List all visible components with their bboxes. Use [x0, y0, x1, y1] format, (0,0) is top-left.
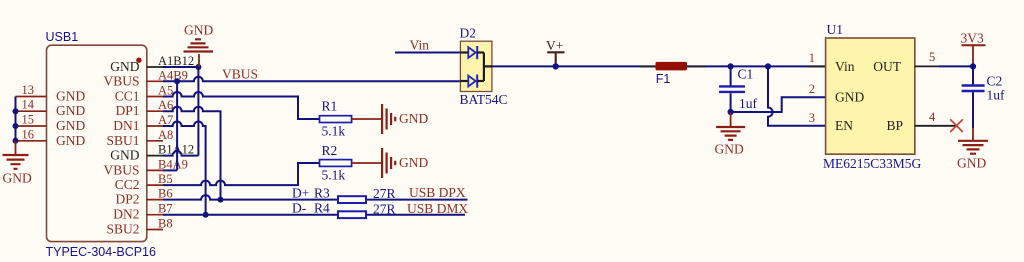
svg-text:U1: U1 [827, 22, 844, 37]
pin-1 marker dot [136, 58, 141, 63]
svg-text:14: 14 [22, 98, 35, 112]
svg-text:C1: C1 [738, 67, 754, 82]
resistor R2 [320, 143, 352, 183]
svg-text:GND: GND [3, 171, 32, 186]
ground symbol C2 [957, 141, 988, 171]
svg-text:R2: R2 [322, 143, 338, 158]
svg-text:GND: GND [399, 155, 428, 170]
svg-text:GND: GND [715, 142, 744, 157]
svg-text:3V3: 3V3 [961, 31, 984, 46]
svg-text:DN1: DN1 [113, 118, 139, 133]
right pin names column [103, 59, 139, 237]
svg-text:B5: B5 [158, 172, 173, 186]
pin 14 [16, 98, 47, 112]
junction node V+ [553, 63, 559, 69]
svg-text:A5: A5 [158, 84, 173, 98]
junction on pin 16 [13, 138, 19, 144]
svg-text:VBUS: VBUS [103, 162, 139, 177]
junction node DN [203, 212, 209, 218]
svg-text:GND: GND [110, 148, 139, 163]
U1 pin 4 BP [886, 110, 957, 133]
net label D+ [292, 186, 309, 201]
svg-text:F1: F1 [656, 72, 671, 86]
svg-text:USB1: USB1 [46, 30, 79, 44]
diode D2 bottom element [460, 75, 484, 88]
svg-text:B4A9: B4A9 [158, 157, 188, 171]
svg-text:DN2: DN2 [113, 207, 139, 222]
wire GND vertical to B1A12 [197, 67, 199, 156]
right pin numbers column [158, 54, 194, 231]
junction node EN tap [765, 63, 771, 69]
svg-text:1: 1 [809, 51, 815, 65]
wire VBUS row1 [163, 77, 460, 82]
pin B1A12 stub [147, 155, 163, 157]
svg-text:5.1k: 5.1k [322, 168, 346, 183]
svg-text:USB DMX: USB DMX [407, 201, 468, 216]
svg-text:OUT: OUT [873, 59, 901, 74]
wire DN2 D- row [163, 214, 465, 216]
designator USB1 [46, 30, 79, 44]
pin 13 [16, 83, 47, 97]
svg-text:GND: GND [56, 133, 85, 148]
wire CC1 to R1 [163, 92, 320, 119]
svg-text:D2: D2 [460, 26, 477, 41]
no-connect X on BP [950, 119, 963, 132]
ground symbol R2 [382, 148, 428, 178]
pin A5 stub [147, 96, 163, 98]
svg-text:B1A12: B1A12 [158, 143, 194, 157]
svg-text:15: 15 [22, 113, 35, 127]
svg-text:Vin: Vin [410, 38, 430, 53]
U1 pin 1 Vin [809, 51, 855, 74]
wire R2 to ground [352, 162, 382, 164]
net label USB DPX [409, 185, 466, 200]
junction node VBUS [174, 78, 180, 84]
value label TYPEC-304-BCP16 [46, 245, 157, 259]
svg-text:USB DPX: USB DPX [409, 185, 466, 200]
net label D- [292, 201, 307, 216]
regulator U1 body [823, 22, 922, 171]
svg-text:ME6215C33M5G: ME6215C33M5G [823, 156, 922, 171]
junction node DP [218, 197, 224, 203]
wire GND row6 [163, 151, 198, 156]
pin A6 stub [147, 110, 163, 112]
svg-text:R3: R3 [314, 186, 330, 201]
junction node GND row0 [195, 64, 201, 70]
svg-text:A1B12: A1B12 [158, 54, 194, 68]
svg-text:1uf: 1uf [739, 96, 758, 111]
wire OUT to 3V3 [939, 65, 973, 67]
svg-text:27R: 27R [373, 186, 396, 201]
pin B5 stub [147, 184, 163, 186]
wire DP1 to vertical D [163, 107, 221, 200]
svg-text:DP2: DP2 [115, 192, 139, 207]
resistor R1 [320, 99, 352, 139]
pin B7 stub [147, 214, 163, 216]
svg-text:5.1k: 5.1k [322, 124, 346, 139]
svg-text:CC2: CC2 [115, 177, 140, 192]
resistor R3 [314, 186, 396, 203]
svg-text:VBUS: VBUS [222, 67, 258, 82]
svg-text:B8: B8 [158, 217, 173, 231]
junction node C1 [728, 63, 734, 69]
junction node 3V3 [970, 63, 976, 69]
svg-text:GND: GND [399, 111, 428, 126]
wire DN1 to vertical C [163, 122, 206, 215]
net label VBUS [222, 67, 258, 82]
wire CC2 to R2 [163, 163, 320, 185]
pin A4B9 stub [147, 80, 163, 82]
pin 16 [16, 127, 47, 141]
svg-text:BP: BP [886, 118, 903, 133]
svg-text:SBU1: SBU1 [106, 133, 139, 148]
left pin names GND x4 [56, 89, 85, 148]
power port 3V3 [961, 31, 986, 67]
svg-text:GND: GND [56, 103, 85, 118]
svg-text:C2: C2 [987, 74, 1003, 89]
U1 pin 5 OUT [873, 50, 939, 74]
ground symbol R1 [382, 104, 428, 134]
pin 15 [16, 113, 47, 127]
svg-text:SBU2: SBU2 [106, 222, 139, 237]
diode D2 body [460, 26, 508, 108]
svg-text:1uf: 1uf [987, 88, 1006, 103]
svg-text:B6: B6 [158, 187, 173, 201]
svg-text:B7: B7 [158, 202, 173, 216]
ground symbol left [3, 141, 32, 186]
svg-text:27R: 27R [373, 202, 396, 217]
wire VBUS row7 [163, 169, 177, 171]
pin B4A9 stub [147, 169, 163, 171]
pin A7 stub [147, 125, 163, 127]
svg-text:R1: R1 [322, 99, 338, 114]
wire R1 to ground [352, 118, 382, 120]
junction on pin 15 [13, 123, 19, 129]
svg-text:Vin: Vin [835, 59, 855, 74]
wire DP2 D+ row [163, 195, 468, 200]
U1 pin 3 EN [809, 111, 853, 133]
net label Vin [410, 38, 430, 53]
svg-text:D+: D+ [292, 186, 309, 201]
pin A1B12 stub [147, 66, 163, 68]
svg-text:EN: EN [835, 118, 853, 133]
svg-text:CC1: CC1 [115, 89, 140, 104]
resistor R4 [314, 201, 396, 218]
diode D2 top element [460, 46, 484, 59]
net label USB DMX [407, 201, 468, 216]
pin B6 stub [147, 199, 163, 201]
pin A8 stub [147, 140, 163, 142]
power port V+ [546, 38, 565, 66]
svg-text:13: 13 [22, 83, 35, 97]
ground symbol C1 [715, 112, 746, 157]
wire left GND bus vertical [15, 97, 17, 141]
capacitor C2 [962, 66, 1005, 102]
wire D2 cathode link [484, 53, 492, 82]
ground symbol top [184, 23, 214, 68]
fuse F1 pins [640, 65, 706, 67]
svg-text:A4B9: A4B9 [158, 68, 188, 82]
svg-text:BAT54C: BAT54C [460, 92, 508, 107]
wire VBUS vertical to B4A9 [176, 81, 178, 170]
wire main V+ rail [492, 65, 826, 67]
fuse F1 body [656, 62, 688, 86]
svg-text:GND: GND [56, 118, 85, 133]
junction node C1-GND [728, 109, 734, 115]
connector USB1 body [47, 45, 147, 241]
svg-text:R4: R4 [314, 201, 330, 216]
wire EN branch with hop [768, 66, 826, 125]
svg-text:D-: D- [292, 201, 307, 216]
svg-text:5: 5 [929, 50, 935, 64]
pin B8 stub [147, 229, 163, 231]
svg-text:VBUS: VBUS [103, 73, 139, 88]
svg-text:GND: GND [184, 23, 213, 38]
svg-text:V+: V+ [546, 38, 563, 53]
svg-text:A8: A8 [158, 128, 173, 142]
wire Vin [395, 52, 460, 54]
svg-text:GND: GND [110, 59, 139, 74]
svg-text:4: 4 [929, 110, 936, 124]
svg-text:2: 2 [809, 82, 815, 96]
wire GND pin2 branch [731, 97, 826, 112]
U1 pin 2 GND [809, 82, 865, 104]
junction on pin 14 [13, 108, 19, 114]
svg-text:GND: GND [957, 156, 986, 171]
wire C2 to ground [972, 92, 974, 140]
svg-text:A6: A6 [158, 98, 173, 112]
wire GND row0 to vertical [163, 66, 198, 68]
svg-text:TYPEC-304-BCP16: TYPEC-304-BCP16 [46, 245, 157, 259]
svg-text:3: 3 [809, 111, 815, 125]
svg-text:GND: GND [56, 89, 85, 104]
svg-text:GND: GND [835, 90, 864, 105]
svg-text:A7: A7 [158, 113, 173, 127]
svg-text:16: 16 [22, 127, 35, 141]
capacitor C1 [719, 66, 758, 112]
svg-text:DP1: DP1 [115, 103, 139, 118]
